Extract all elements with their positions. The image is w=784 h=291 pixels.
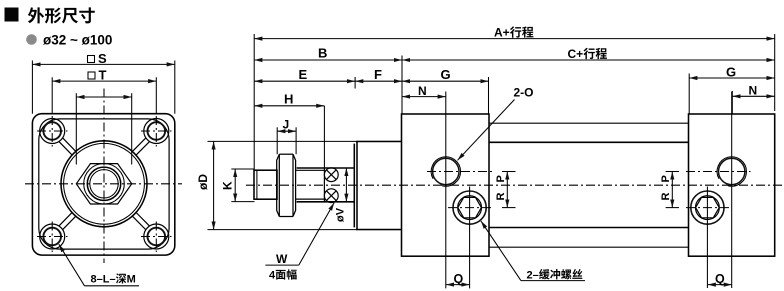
flats mark circle upper [324, 168, 338, 182]
title text 外形尺寸 [28, 7, 95, 23]
dim A+stroke [254, 38, 775, 40]
dim B [254, 59, 402, 61]
dim S extension right [174, 61, 176, 114]
flange center vertical centerline [103, 89, 105, 264]
big bore circle inner [64, 143, 145, 224]
collar top edge + D extension [208, 140, 403, 142]
svg-text:M: M [127, 274, 136, 286]
svg-text:2-O: 2-O [514, 86, 534, 100]
dim P R rear [666, 172, 679, 208]
dim H [254, 105, 324, 107]
svg-text:R: R [495, 193, 507, 201]
hex width dim line [76, 96, 131, 98]
svg-text:P: P [660, 175, 672, 182]
flange outer outline [32, 114, 174, 255]
boss circle bottom-left [40, 224, 65, 249]
flats mark circle lower [324, 189, 338, 203]
extension block right [488, 77, 490, 114]
rod circle inner [90, 170, 118, 198]
hole crosshair bottom-right [141, 222, 172, 253]
boss circle bottom-right [144, 224, 169, 249]
svg-text:K: K [221, 181, 235, 190]
dim G front [402, 80, 489, 82]
svg-text:øV: øV [335, 207, 347, 222]
svg-text:ø32 ~ ø100: ø32 ~ ø100 [43, 33, 112, 48]
front port vertical centerline [445, 92, 447, 289]
tube bottom line [489, 227, 689, 229]
spoke top-right [132, 138, 149, 155]
svg-text:C+: C+ [568, 47, 584, 61]
dim N front [402, 96, 446, 98]
svg-text:N: N [749, 84, 758, 98]
piston rod thread body [254, 170, 277, 199]
rear screw horizontal centerline [686, 207, 729, 209]
bolt hole bottom-right [148, 228, 166, 246]
tie rod top line [489, 122, 689, 124]
extension rear N [731, 91, 733, 114]
front port circle 2-O [433, 158, 459, 184]
svg-text:N: N [418, 84, 427, 98]
rod boss V tangent lines [297, 168, 355, 202]
rear head block [689, 114, 775, 256]
svg-text:øD: øD [196, 174, 210, 190]
rear port horizontal centerline [686, 171, 751, 173]
boss circle top-left [40, 119, 65, 144]
dim Q rear [708, 284, 732, 286]
flange center horizontal centerline [25, 183, 182, 185]
dim T extension right [155, 77, 157, 113]
rod nut hexagon [76, 164, 131, 204]
svg-text:G: G [441, 67, 451, 82]
hole crosshair top-left [37, 116, 68, 147]
svg-text:H: H [284, 92, 293, 107]
extension E-F boundary [354, 77, 356, 89]
extension far right [774, 34, 776, 111]
flange inner profile [39, 119, 169, 249]
bolt hole top-right [148, 122, 166, 140]
rod circle outer [87, 167, 120, 200]
hole crosshair top-right [141, 116, 172, 147]
dim F [355, 80, 402, 82]
front screw horizontal centerline [448, 207, 492, 209]
bolt hole bottom-left [43, 228, 61, 246]
spoke bottom-left [59, 213, 76, 230]
rear screw vertical centerline [706, 187, 708, 289]
rear cushion screw inner [696, 196, 720, 220]
svg-text:Q: Q [715, 272, 725, 286]
hex width extension right [131, 93, 133, 164]
front head block [402, 114, 490, 256]
svg-text:4: 4 [269, 270, 276, 282]
hole crosshair bottom-left [37, 222, 68, 253]
big bore circle outer [61, 141, 147, 227]
hex width extension left [75, 93, 77, 164]
extension rod end face [253, 34, 255, 170]
front cushion screw outer [453, 191, 486, 224]
dim D diameter [213, 141, 215, 229]
svg-text:E: E [299, 67, 308, 82]
svg-text:2–: 2– [527, 269, 539, 281]
tie rod bottom line [489, 246, 689, 248]
front collar face double line [354, 142, 357, 230]
collar bottom edge + D extension [208, 229, 403, 231]
wrench flats edge [323, 168, 325, 202]
svg-text:R: R [660, 193, 672, 201]
dim V diameter [345, 168, 347, 202]
dim N rear [732, 95, 774, 97]
front cushion screw inner [458, 196, 482, 220]
main centerline [246, 184, 783, 186]
extension J left [276, 127, 278, 154]
svg-text:P: P [495, 175, 507, 182]
svg-text:Q: Q [454, 272, 464, 286]
extension rear block left [688, 74, 690, 114]
svg-text:B: B [318, 45, 327, 60]
rear cushion screw outer [691, 191, 724, 224]
svg-text:G: G [726, 64, 736, 79]
front port thread arc [431, 157, 460, 186]
label W wrench flats with leader [265, 203, 334, 266]
spoke top-left [59, 138, 76, 155]
boss circle top-right [144, 119, 169, 144]
label square S [88, 56, 95, 63]
front port horizontal centerline [427, 171, 492, 173]
label square T [88, 72, 95, 79]
dim C+stroke [402, 59, 775, 61]
svg-text:J: J [283, 117, 290, 131]
svg-text:W: W [276, 252, 288, 266]
dim S extension left [31, 61, 33, 114]
rear port thread arc [717, 157, 746, 186]
bolt hole top-left [43, 122, 61, 140]
thread chamfer line [256, 170, 258, 199]
leader 8-L-深M [59, 244, 139, 286]
rear port vertical centerline [731, 92, 733, 289]
nut chamfer circle [84, 164, 125, 205]
extension block left [401, 56, 403, 114]
rod section K lines [295, 170, 324, 199]
rear port circle [719, 158, 745, 184]
dim T extension left [51, 77, 53, 113]
title bullet square [5, 8, 19, 22]
collar edges thick [356, 142, 402, 230]
spoke bottom-right [132, 213, 149, 230]
dim E [254, 80, 355, 82]
svg-text:8–L–: 8–L– [91, 274, 116, 286]
tube top line [489, 141, 689, 143]
extension H right / flats edge upper [323, 106, 325, 168]
front screw vertical centerline [469, 187, 471, 289]
svg-text:F: F [374, 67, 382, 82]
rod nut side view [277, 154, 296, 216]
front cushion screw hex socket [458, 197, 482, 217]
dim line T [52, 80, 156, 82]
rear cushion screw hex socket [696, 197, 720, 217]
svg-text:A+: A+ [494, 26, 510, 40]
label cushion screws with leader [481, 221, 585, 281]
dim P R front [502, 172, 516, 208]
dim G rear [689, 77, 775, 79]
dim K [231, 169, 254, 202]
extension J right [295, 127, 297, 154]
dim Q front [446, 284, 470, 286]
svg-text:S: S [98, 51, 107, 66]
dim line S [32, 63, 174, 65]
svg-text:T: T [99, 67, 107, 82]
dim J [277, 130, 296, 132]
bullet circle [26, 34, 37, 45]
